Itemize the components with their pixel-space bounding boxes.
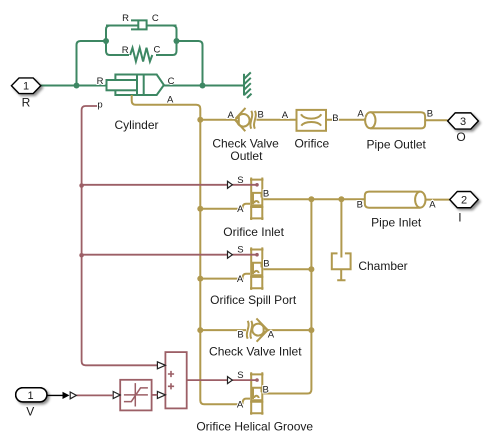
svg-text:C: C bbox=[152, 13, 159, 24]
svg-text:S: S bbox=[237, 175, 243, 186]
svg-text:Orifice: Orifice bbox=[294, 137, 329, 151]
svg-text:R: R bbox=[97, 76, 104, 87]
svg-text:A: A bbox=[237, 204, 244, 215]
svg-text:A: A bbox=[357, 109, 364, 120]
svg-text:Orifice Spill Port: Orifice Spill Port bbox=[210, 293, 297, 307]
svg-text:R: R bbox=[122, 13, 129, 24]
svg-text:R: R bbox=[22, 96, 31, 110]
svg-text:S: S bbox=[237, 245, 243, 256]
svg-text:C: C bbox=[168, 76, 175, 87]
svg-text:B: B bbox=[258, 109, 264, 120]
svg-text:C: C bbox=[153, 45, 160, 56]
svg-text:B: B bbox=[427, 109, 433, 120]
svg-text:Outlet: Outlet bbox=[230, 149, 263, 163]
svg-text:2: 2 bbox=[461, 195, 467, 207]
svg-text:A: A bbox=[237, 400, 244, 411]
svg-text:I: I bbox=[458, 210, 461, 224]
svg-text:A: A bbox=[167, 95, 174, 106]
svg-text:Cylinder: Cylinder bbox=[114, 118, 158, 132]
svg-text:Pipe Outlet: Pipe Outlet bbox=[367, 138, 427, 152]
svg-text:1: 1 bbox=[28, 390, 34, 402]
svg-text:3: 3 bbox=[460, 116, 466, 128]
svg-text:Orifice Inlet: Orifice Inlet bbox=[223, 225, 284, 239]
svg-text:B: B bbox=[237, 330, 243, 341]
svg-text:Pipe Inlet: Pipe Inlet bbox=[371, 215, 422, 229]
svg-text:A: A bbox=[268, 330, 275, 341]
svg-text:Check Valve Inlet: Check Valve Inlet bbox=[209, 345, 302, 359]
svg-text:B: B bbox=[263, 385, 269, 396]
svg-text:R: R bbox=[122, 45, 129, 56]
svg-text:B: B bbox=[263, 258, 269, 269]
svg-text:Orifice Helical Groove: Orifice Helical Groove bbox=[196, 420, 313, 434]
svg-text:S: S bbox=[237, 370, 243, 381]
svg-text:A: A bbox=[228, 110, 235, 121]
svg-text:p: p bbox=[97, 100, 102, 111]
svg-text:B: B bbox=[357, 200, 363, 211]
svg-text:A: A bbox=[237, 274, 244, 285]
svg-text:V: V bbox=[26, 404, 34, 418]
svg-text:A: A bbox=[282, 110, 289, 121]
svg-text:O: O bbox=[456, 130, 465, 144]
svg-text:B: B bbox=[263, 189, 269, 200]
svg-text:B: B bbox=[332, 113, 338, 124]
svg-text:1: 1 bbox=[23, 81, 29, 93]
svg-text:Chamber: Chamber bbox=[358, 259, 407, 273]
svg-text:A: A bbox=[429, 200, 436, 211]
